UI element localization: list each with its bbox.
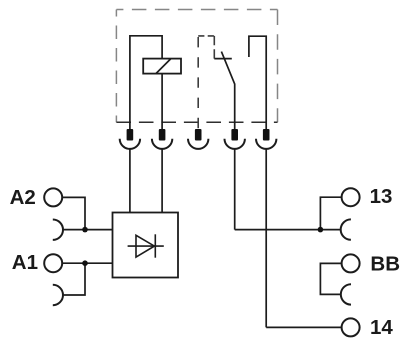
svg-text:A1: A1	[12, 251, 38, 274]
svg-text:A2: A2	[10, 186, 36, 209]
svg-text:14: 14	[370, 316, 393, 339]
svg-text:BB: BB	[370, 253, 400, 276]
svg-text:13: 13	[370, 185, 393, 208]
